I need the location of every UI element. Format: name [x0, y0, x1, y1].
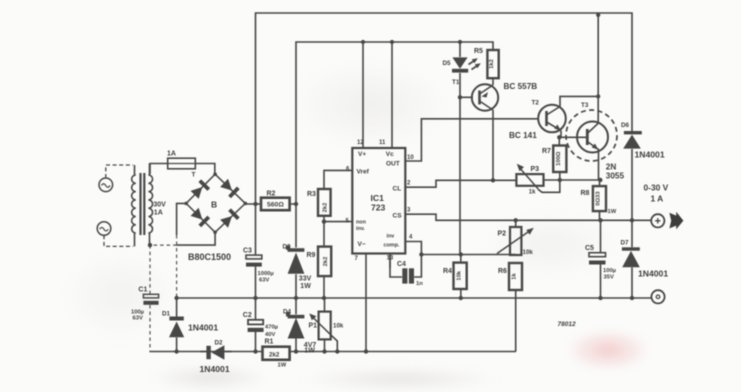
transistor T2 BC141 — [538, 105, 566, 133]
svg-text:C3: C3 — [243, 248, 252, 255]
svg-text:CS: CS — [393, 213, 403, 220]
svg-text:100Ω: 100Ω — [556, 151, 562, 166]
wire secondary bottom to bridge bottom — [177, 232, 216, 245]
bridge diode bottom-right — [220, 208, 240, 228]
svg-text:2k2: 2k2 — [323, 203, 329, 213]
wire C3/C2 column — [255, 204, 257, 352]
svg-text:BC 141: BC 141 — [509, 131, 537, 140]
wire pin5 to R3/R9 junction — [324, 216, 352, 247]
svg-text:11: 11 — [379, 140, 386, 146]
transformer secondary winding — [148, 164, 152, 246]
wire pin4 branch line y254.5 to P2 bottom — [421, 255, 515, 263]
wire P2 stubs — [515, 220, 517, 255]
resistor R4 10k — [454, 263, 467, 289]
bridge diode top-right — [220, 178, 240, 198]
svg-text:D3: D3 — [283, 244, 292, 251]
output terminal minus — [651, 290, 664, 303]
svg-text:3: 3 — [407, 208, 411, 214]
wire D1 column dashes — [176, 235, 178, 298]
svg-text:inv: inv — [387, 234, 395, 240]
wire pin6 Vref to R3 — [324, 170, 352, 189]
output arrow — [669, 212, 683, 230]
svg-text:R9: R9 — [307, 252, 316, 259]
svg-text:35V: 35V — [604, 275, 614, 281]
transformer T core — [139, 173, 145, 235]
svg-text:comp.: comp. — [384, 243, 400, 249]
svg-text:T2: T2 — [532, 100, 540, 107]
capacitor C5 — [589, 253, 606, 265]
svg-text:30V: 30V — [153, 202, 166, 209]
svg-text:P3: P3 — [531, 166, 540, 173]
svg-text:10k: 10k — [333, 323, 344, 330]
wire bottom rail — [150, 350, 517, 353]
svg-text:IC1: IC1 — [371, 193, 385, 203]
wire plus terminal stub — [650, 219, 653, 221]
AC source bottom — [97, 222, 133, 247]
wire R6 bottom to rail corner — [515, 290, 517, 352]
svg-text:D4: D4 — [283, 309, 292, 316]
svg-text:1N4001: 1N4001 — [635, 150, 665, 160]
zener diode D4 4V7 — [286, 312, 304, 339]
wire pin12 V+ vertical — [362, 42, 364, 148]
wire P1 stubs — [324, 298, 326, 352]
svg-text:inv.: inv. — [356, 226, 365, 232]
svg-text:1A: 1A — [167, 151, 176, 158]
diode D7 — [622, 247, 640, 267]
svg-text:1k: 1k — [512, 273, 518, 280]
svg-text:R5: R5 — [474, 48, 483, 55]
svg-text:10k: 10k — [456, 270, 462, 280]
svg-text:40V: 40V — [265, 332, 275, 338]
wire pin7 vertical to bottom rail — [365, 254, 367, 352]
svg-text:1000µ: 1000µ — [258, 271, 274, 277]
IC1 723 box — [352, 148, 405, 254]
svg-text:Vref: Vref — [357, 169, 370, 176]
svg-text:C4: C4 — [397, 261, 406, 268]
svg-text:10: 10 — [407, 155, 414, 161]
wire R8 stubs — [599, 180, 601, 220]
svg-text:P1: P1 — [309, 323, 318, 330]
svg-text:T: T — [192, 172, 196, 179]
svg-text:1k2: 1k2 — [489, 59, 495, 69]
svg-text:3055: 3055 — [606, 172, 625, 181]
svg-text:1n: 1n — [416, 281, 423, 287]
transistor T3 2N3055 with case — [566, 110, 617, 161]
bridge diode top-left — [190, 179, 210, 199]
svg-text:B: B — [211, 200, 217, 210]
wire P1 wiper to rail — [331, 335, 338, 352]
resistor R2 560 — [261, 198, 290, 211]
svg-text:1N4001: 1N4001 — [200, 364, 230, 374]
wire T2 emitter down — [559, 131, 561, 146]
svg-text:R7: R7 — [542, 148, 551, 155]
transformer primary winding — [132, 165, 136, 246]
svg-text:T3: T3 — [581, 102, 589, 109]
svg-text:B80C1500: B80C1500 — [188, 252, 231, 262]
svg-text:BC 557B: BC 557B — [504, 82, 538, 91]
svg-text:CL: CL — [393, 186, 402, 193]
resistor R5 1k2 — [487, 50, 498, 78]
svg-text:63V: 63V — [259, 278, 269, 284]
svg-text:V−: V− — [358, 241, 366, 248]
wire LED / T1 base vertical — [459, 42, 461, 255]
svg-text:R2: R2 — [267, 191, 276, 198]
svg-text:D5: D5 — [443, 60, 452, 67]
wire T3 base — [559, 136, 586, 138]
svg-text:V+: V+ — [358, 151, 366, 158]
svg-text:R6: R6 — [498, 268, 507, 275]
svg-text:560Ω: 560Ω — [267, 202, 284, 209]
svg-text:D7: D7 — [621, 240, 630, 247]
svg-text:1 A: 1 A — [651, 194, 664, 204]
svg-text:100µ: 100µ — [603, 268, 616, 274]
potentiometer P1 10k — [309, 312, 330, 340]
wire secondary top to fuse to bridge top — [150, 164, 215, 175]
wire pin13 stub — [389, 254, 391, 269]
bridge diode bottom-left — [190, 207, 210, 227]
svg-text:10k: 10k — [523, 249, 534, 256]
svg-text:12: 12 — [357, 140, 364, 146]
svg-text:1W: 1W — [300, 283, 311, 290]
fuse F 1A — [168, 158, 196, 169]
svg-text:2k2: 2k2 — [323, 257, 329, 267]
svg-text:7: 7 — [355, 256, 359, 262]
svg-text:1N4001: 1N4001 — [638, 269, 668, 279]
wire bottom rail through D2 gap — [200, 351, 232, 353]
wire outer top rail — [256, 13, 633, 204]
wire pin11 Vc vertical — [391, 42, 393, 148]
wire main plus line y204 bridge to R2 to D3 column — [245, 203, 296, 205]
svg-text:R8: R8 — [581, 190, 590, 197]
svg-text:33V: 33V — [299, 276, 312, 283]
wire T2 collector to T3 collector node — [560, 96, 598, 106]
wire C5 column — [600, 220, 602, 298]
wire inner top rail — [296, 42, 493, 204]
svg-text:1k: 1k — [529, 190, 536, 196]
svg-text:13: 13 — [387, 256, 394, 262]
wire C1 column dashed — [149, 245, 151, 351]
resistor R3 2k2 — [318, 189, 331, 216]
svg-text:2N: 2N — [606, 163, 617, 172]
capacitor C3 — [246, 255, 262, 267]
svg-text:R4: R4 — [443, 268, 452, 275]
zener diode D3 33V — [286, 245, 304, 273]
svg-text:1N4001: 1N4001 — [188, 323, 218, 333]
svg-text:0Ω33: 0Ω33 — [596, 191, 602, 206]
svg-text:1W: 1W — [608, 209, 617, 215]
diode D2 — [206, 345, 224, 360]
wire D6 D7 column — [631, 149, 633, 298]
svg-text:T1: T1 — [452, 79, 460, 86]
wire R7 bottom / P3 wiper link — [538, 172, 560, 192]
svg-text:D1: D1 — [162, 311, 171, 318]
resistor R6 1k — [509, 263, 522, 290]
wire P3 right to R8 top node — [544, 179, 601, 181]
svg-text:470µ: 470µ — [265, 325, 278, 331]
svg-text:1W: 1W — [278, 363, 287, 369]
svg-text:C2: C2 — [243, 312, 252, 319]
wire CS line pin3 to plus output — [406, 214, 652, 220]
svg-text:C1: C1 — [138, 287, 147, 294]
svg-text:78012: 78012 — [558, 321, 576, 328]
wire T1 base stub — [460, 96, 473, 98]
svg-text:2k2: 2k2 — [269, 352, 280, 359]
svg-text:2: 2 — [407, 181, 411, 187]
svg-text:Vc: Vc — [386, 151, 394, 158]
svg-text:D2: D2 — [215, 340, 224, 347]
resistor R8 0.33 — [593, 186, 606, 211]
LED D5 emission arrows — [469, 58, 481, 69]
wire T1 collector down to CL — [492, 110, 494, 180]
resistor R7 100 — [553, 146, 566, 173]
AC source top — [99, 165, 133, 192]
svg-text:non: non — [356, 220, 366, 226]
svg-text:723: 723 — [371, 203, 386, 213]
wire minus line — [177, 297, 652, 299]
capacitor C4 1n — [402, 268, 414, 283]
svg-text:R1: R1 — [265, 339, 274, 346]
wire R9 bottom to minus line — [323, 276, 325, 298]
wire T1 emitter / R5 column — [492, 78, 494, 85]
resistor R1 2k2 — [263, 347, 290, 360]
potentiometer P2 10k — [497, 227, 534, 255]
svg-text:C5: C5 — [585, 245, 594, 252]
svg-text:4: 4 — [409, 235, 413, 241]
diode D1 — [169, 317, 184, 338]
wire CL line pin2 to P3 — [406, 180, 517, 187]
wire R4 bottom stub — [460, 289, 462, 298]
wire T3 emitter vertical — [598, 149, 600, 180]
svg-text:6: 6 — [346, 167, 350, 173]
svg-text:63V: 63V — [133, 316, 143, 322]
capacitor C2 — [248, 320, 264, 332]
LED D5 — [452, 57, 468, 72]
capacitor C1 — [143, 294, 158, 305]
svg-text:0-30 V: 0-30 V — [644, 183, 669, 193]
wire pin4 loop and C4 column — [390, 242, 421, 278]
svg-text:R3: R3 — [307, 191, 316, 198]
svg-text:1W: 1W — [304, 347, 315, 354]
wire T3 collector vertical — [597, 15, 599, 123]
bridge rectifier B diamond — [186, 174, 245, 232]
wire bridge left corner down through D1 — [177, 203, 187, 235]
svg-text:OUT: OUT — [386, 161, 400, 168]
wire OUT pin10 to T2 base — [406, 119, 539, 161]
svg-text:D6: D6 — [621, 122, 630, 129]
diode D6 — [623, 131, 642, 149]
output terminal plus — [651, 214, 664, 227]
resistor R9 2k2 — [318, 247, 331, 277]
svg-text:P2: P2 — [498, 231, 507, 238]
potentiometer P3 1k — [516, 164, 543, 189]
wire D3/D4 column — [295, 204, 297, 352]
svg-text:1A: 1A — [154, 210, 163, 217]
transistor T1 BC557B — [472, 84, 498, 110]
